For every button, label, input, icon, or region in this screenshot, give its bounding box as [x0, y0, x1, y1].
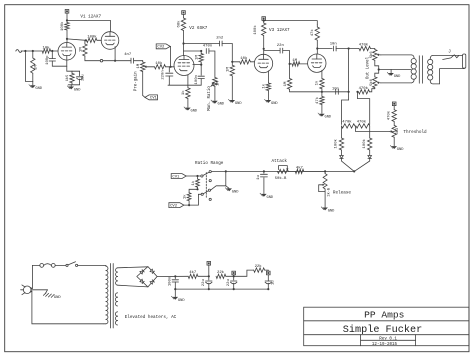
label VR1 1M: [137, 63, 141, 68]
label R11 10k: [240, 56, 248, 61]
wire screen branch: [184, 50, 202, 52]
potentiometer VR1 1M pre-gain: [141, 61, 145, 98]
label VR7 1k-B: [326, 187, 331, 197]
label C7 22n: [277, 44, 284, 48]
svg-text:CV2: CV2: [157, 46, 165, 50]
transistor V2 6SK7 pentode: [174, 56, 194, 76]
resistor R6 10k: [147, 65, 166, 69]
svg-text:100p: 100p: [46, 55, 50, 65]
label R8 1M: [196, 55, 200, 60]
wire V1a cathode: [66, 56, 68, 71]
transformer T2 primary: [411, 59, 416, 80]
wire CV2 to switch: [184, 204, 199, 206]
svg-text:1k: 1k: [182, 194, 187, 199]
label R4 1M: [79, 47, 83, 52]
node V3 B+ junction: [263, 20, 265, 22]
svg-text:220n: 220n: [162, 70, 166, 79]
capacitor C8 10n top: [334, 46, 337, 51]
resistor R16 47k plate: [315, 25, 319, 49]
node C1 junction: [51, 50, 53, 52]
power flag V2 B+: [182, 11, 186, 15]
node rail drop junction: [225, 170, 227, 172]
svg-text:1u: 1u: [271, 280, 275, 285]
wire sidechain right drop: [358, 92, 370, 125]
label VR6 50k-B: [275, 176, 287, 181]
svg-text:CV1: CV1: [150, 97, 158, 101]
wiper arrow VR4: [377, 81, 381, 84]
wire C5 to ratio pot: [209, 51, 215, 78]
svg-text:68k: 68k: [177, 20, 182, 28]
label R24 100k: [362, 138, 367, 148]
node top rail junction: [348, 47, 350, 49]
svg-text:47k: 47k: [310, 29, 315, 37]
node output bubble: [100, 59, 103, 62]
wire fuse to switch: [55, 264, 66, 266]
switch SW1 pole2 arm: [203, 191, 208, 194]
svg-text:2n2: 2n2: [216, 36, 224, 40]
resistor R13 1M: [290, 62, 308, 66]
svg-text:4k7: 4k7: [189, 270, 197, 275]
svg-text:100k: 100k: [253, 25, 258, 35]
resistor R3 100k plate load: [65, 20, 69, 39]
node release junction: [324, 170, 326, 172]
wire output node: [85, 60, 131, 62]
resistor R18 47k bleed: [320, 92, 324, 114]
power flag node A: [207, 262, 211, 277]
label R12 100k: [253, 25, 258, 35]
wire sidechain cross: [342, 49, 349, 125]
label C12 22u: [202, 279, 206, 286]
capacitor C9 10n bottom: [336, 89, 339, 94]
svg-text:GND: GND: [232, 190, 239, 194]
svg-text:V2 6SK7: V2 6SK7: [189, 26, 207, 31]
switch SW1 pole1 arm: [203, 172, 209, 175]
wire C1 to cathode: [52, 61, 67, 66]
svg-text:1k: 1k: [261, 83, 266, 88]
transformer T1 secondary HV: [116, 268, 118, 285]
capacitor C13 22u: [231, 276, 237, 289]
title PP Amps: [364, 310, 404, 321]
node CV2 junction: [188, 204, 190, 206]
label R17 1k: [315, 80, 320, 85]
ground GND center tap: [387, 70, 401, 79]
resistor R19 470k: [359, 46, 375, 50]
svg-text:100n: 100n: [169, 277, 173, 286]
label V1 12AX7: [80, 15, 101, 20]
resistor R1 1M: [31, 51, 35, 81]
capacitor C1 100p: [49, 51, 55, 61]
svg-text:1k: 1k: [315, 80, 320, 85]
wire C8 to junction: [336, 48, 359, 50]
label R3 100k: [60, 21, 65, 31]
op-amp V3a triode: [254, 54, 272, 72]
label R13 1M: [292, 59, 297, 63]
wire V3a plate lead: [263, 49, 265, 55]
capacitor C14 1u: [265, 281, 271, 289]
svg-text:470n: 470n: [203, 45, 212, 49]
node input junction: [24, 50, 26, 52]
node B+ junction V1: [66, 19, 68, 21]
transformer T1 primary: [104, 265, 108, 323]
wire pole2 to rail drop: [211, 186, 226, 190]
label R30 22k: [217, 270, 225, 275]
label Elevated heaters AC: [125, 315, 177, 320]
wire V2 plate to C6: [184, 43, 220, 45]
title block col line 2: [415, 335, 417, 346]
svg-text:GND: GND: [397, 148, 404, 152]
label V3 12AX7: [269, 28, 290, 33]
label C1 100p: [46, 55, 50, 65]
title block row line 1: [304, 320, 469, 322]
wire cathode bus top: [67, 70, 80, 72]
svg-text:100k: 100k: [87, 34, 97, 39]
diode D2: [368, 156, 372, 159]
label C9 10n: [332, 87, 339, 91]
svg-text:22u: 22u: [202, 279, 206, 286]
svg-text:1k: 1k: [191, 180, 196, 185]
ground GND switch: [225, 186, 239, 195]
node R26 bottom junction: [196, 188, 198, 190]
resistor R28 4k7: [288, 169, 325, 173]
chassis ground: [43, 293, 61, 300]
switch SW1 pole1 throw A: [209, 171, 211, 173]
label C14 1u: [271, 280, 275, 285]
potentiometer VR3 5k6: [373, 49, 379, 70]
svg-text:GND: GND: [271, 102, 278, 106]
label C5 470n: [203, 45, 212, 49]
svg-text:1k-B: 1k-B: [326, 187, 331, 197]
svg-text:1M: 1M: [217, 81, 221, 86]
wire psu ground rail: [175, 288, 268, 290]
resistor R30 22k: [216, 274, 234, 278]
title Simple Fucker: [343, 324, 422, 336]
label R1 1M: [35, 65, 39, 70]
ground GND R18: [318, 113, 332, 120]
jack sleeve wire: [430, 68, 464, 84]
svg-text:3k3: 3k3: [395, 128, 400, 135]
title block frame: [304, 307, 469, 346]
AC plug: [21, 285, 32, 295]
jack tip contact: [443, 55, 459, 60]
label C15 22u: [81, 74, 85, 80]
title date: [372, 343, 398, 347]
node V2 plate junction: [182, 42, 184, 44]
node V1b grid junction: [85, 39, 87, 41]
svg-text:GND: GND: [74, 88, 81, 92]
svg-text:Elevated heaters, AC: Elevated heaters, AC: [125, 315, 177, 320]
wire V2 plate lead: [183, 44, 185, 56]
switch SW1 pole2 throw B: [209, 198, 211, 200]
svg-text:1k: 1k: [181, 90, 186, 95]
wire C6 to grid node: [222, 44, 232, 62]
ground GND1: [29, 85, 43, 92]
tag CV1 output: [145, 95, 158, 101]
label VR2 1M: [217, 81, 221, 86]
wire secondary top lead: [430, 55, 462, 59]
title block row line 2: [304, 334, 469, 336]
node A junction: [208, 275, 210, 277]
ground GND threshold: [390, 145, 404, 152]
op-amp V3b triode: [308, 54, 326, 72]
label R6 10k: [155, 61, 163, 66]
wire threshold tap: [355, 126, 389, 131]
label C6 2n2: [216, 36, 224, 40]
power flag V1 B+: [65, 10, 69, 21]
title block rev line: [361, 339, 416, 341]
capacitor C4 100n screen: [168, 65, 204, 86]
svg-text:10n: 10n: [330, 42, 337, 46]
resistor R31 22k: [254, 268, 265, 272]
svg-text:1k5: 1k5: [65, 75, 70, 81]
svg-text:100n: 100n: [195, 75, 199, 84]
svg-text:100k: 100k: [362, 138, 367, 148]
resistor R24 100k right: [368, 126, 372, 156]
svg-text:PP Amps: PP Amps: [364, 310, 404, 321]
svg-text:GND: GND: [54, 296, 62, 300]
wire V3b cathode: [321, 70, 323, 78]
label R5 100k: [87, 34, 97, 39]
svg-text:Out Level: Out Level: [365, 56, 370, 79]
transformer T1 heater winding 1: [115, 293, 117, 306]
resistor R11 10k: [232, 60, 250, 64]
potentiometer VR5 3k3 threshold: [392, 125, 396, 145]
potentiometer VR7 1k-B release: [323, 171, 327, 207]
node C10 junction: [263, 170, 265, 172]
capacitor C10 1u: [260, 171, 267, 193]
label VR5 3k3: [395, 128, 400, 135]
capacitor C15 22u bypass: [77, 71, 83, 85]
node CV1 junction: [196, 175, 198, 177]
wire to GND1b: [70, 85, 72, 87]
resistor R15 1k: [266, 83, 270, 100]
svg-text:10k: 10k: [155, 61, 163, 66]
resistor R9 1k cathode: [186, 88, 190, 108]
svg-text:1M: 1M: [79, 47, 83, 52]
resistor R26 1k: [196, 176, 200, 189]
switch SW1 pole2 common: [201, 193, 203, 195]
wire R2 to V1a grid: [51, 50, 59, 52]
node ground rail junction: [174, 288, 176, 290]
svg-text:47k: 47k: [315, 96, 320, 104]
label VR4 5k6: [369, 79, 374, 86]
potentiometer VR6 50k-B attack: [278, 169, 289, 173]
label C3 220n: [162, 70, 166, 79]
power flag node B: [232, 271, 236, 276]
wire diode summing: [342, 159, 370, 172]
svg-text:1M: 1M: [227, 67, 231, 72]
wiper arrow VR5: [389, 130, 393, 133]
svg-text:1M: 1M: [292, 59, 297, 63]
label R16 47k: [310, 29, 315, 37]
resistor R25 470k: [392, 106, 396, 126]
label R27 1k: [182, 194, 187, 199]
label Threshold: [403, 130, 427, 135]
wire rail drop: [225, 171, 227, 185]
label R31 22k: [255, 264, 263, 269]
resistor R22 470k right: [356, 124, 370, 128]
svg-text:Release: Release: [333, 191, 351, 196]
label R15 1k: [261, 83, 266, 88]
switch SW2 power: [66, 262, 104, 267]
svg-text:Simple Fucker: Simple Fucker: [343, 324, 422, 336]
tag CV2 input: [156, 44, 170, 50]
ground GND release: [321, 207, 335, 214]
wire CV2 to grid: [170, 46, 172, 66]
label J jack: [448, 49, 451, 54]
wire C7 to V3b grid node: [283, 51, 290, 64]
node summing junction: [353, 170, 355, 172]
svg-text:V1 12AX7: V1 12AX7: [80, 15, 101, 20]
svg-text:10k: 10k: [43, 45, 51, 50]
svg-text:4k7: 4k7: [296, 165, 304, 170]
wire R11 to V3a grid: [250, 61, 254, 63]
svg-text:Ratio Range: Ratio Range: [195, 161, 224, 166]
node gnd rail B: [233, 288, 235, 290]
svg-text:470k: 470k: [357, 120, 367, 125]
capacitor C2 4n7: [131, 58, 134, 63]
resistor R23 100k left: [339, 126, 343, 156]
svg-text:GND: GND: [235, 102, 242, 106]
svg-text:GND: GND: [267, 196, 274, 200]
label V2 6SK7: [189, 26, 207, 31]
label R23 100k: [334, 138, 339, 148]
wire to node C: [265, 270, 269, 271]
wire R26 to R27: [189, 189, 197, 193]
wire CV1 to switch: [186, 175, 200, 177]
node V3a plate junction: [263, 48, 265, 50]
label R26 1k: [191, 180, 196, 185]
svg-text:1M: 1M: [35, 65, 39, 70]
label R20 470k: [359, 86, 369, 91]
wire HV bottom lead: [118, 285, 148, 287]
transformer T1 core: [111, 264, 114, 329]
transformer T2 secondary: [428, 59, 433, 80]
svg-text:22u: 22u: [81, 74, 85, 80]
capacitor C7 22n: [280, 48, 283, 53]
wire cathode bus bottom: [68, 84, 79, 86]
capacitor C5 470n: [206, 49, 209, 54]
label C8 10n: [330, 42, 337, 46]
svg-text:Rev 0.1: Rev 0.1: [379, 338, 397, 342]
wire V3b plate lead: [316, 49, 318, 55]
resistor R5 100k grid stopper: [87, 38, 97, 42]
wiper arrow VR2: [211, 82, 214, 86]
op-amp V1a triode: [58, 43, 76, 61]
svg-text:470k: 470k: [359, 86, 369, 91]
label R25 470k: [386, 110, 391, 120]
svg-text:22u: 22u: [227, 279, 231, 286]
label Attack: [272, 159, 288, 164]
wire center tap: [379, 69, 411, 71]
ground GND R10: [228, 99, 242, 106]
label R28 4k7: [296, 165, 304, 170]
label Release: [333, 191, 351, 196]
node B junction: [233, 275, 235, 277]
label R19 470k: [359, 43, 369, 48]
svg-text:GND: GND: [35, 87, 42, 91]
ground GND V3a: [265, 99, 279, 106]
capacitor C12 22u: [206, 276, 212, 289]
tag CV2 ratio: [169, 203, 184, 209]
wire to ground: [32, 81, 34, 85]
input source squiggle: [16, 50, 22, 53]
svg-text:J: J: [448, 49, 451, 54]
svg-text:1u: 1u: [257, 175, 261, 180]
label C13 22u: [227, 279, 231, 286]
svg-text:Man. Ratio: Man. Ratio: [207, 86, 212, 111]
wire plug earth: [31, 290, 48, 294]
node V3 grid node: [231, 61, 233, 63]
power flag node C: [267, 271, 271, 281]
label R22 470k: [357, 120, 367, 125]
label Out Level: [365, 56, 370, 79]
svg-text:GND: GND: [178, 299, 185, 303]
svg-text:GND: GND: [325, 116, 332, 120]
svg-text:50k-B: 50k-B: [275, 176, 287, 181]
node center tap junction: [378, 68, 380, 70]
resistor R4 1M feedback: [83, 40, 87, 60]
svg-text:10k: 10k: [240, 56, 248, 61]
wiper arrow VR3: [377, 54, 381, 57]
power flag V3 B+: [262, 17, 266, 21]
switch SW1 pole1 common: [201, 175, 203, 177]
svg-text:12-19-2015: 12-19-2015: [372, 343, 398, 347]
resistor R27 1k: [187, 193, 191, 205]
svg-text:Attack: Attack: [272, 159, 288, 164]
svg-text:GND: GND: [328, 209, 335, 213]
wire R6 to V2 grid: [166, 66, 175, 68]
wire V2 cathode: [187, 75, 189, 88]
wire V3a to C7: [264, 50, 280, 52]
label C10 1u: [257, 175, 261, 180]
svg-text:22n: 22n: [277, 44, 284, 48]
wire bottom primary lead: [381, 79, 414, 83]
resistor R14 1M: [287, 64, 291, 92]
label R9 1k: [181, 90, 186, 95]
potentiometer VR4 5k6: [373, 70, 379, 89]
resistor R7 68k: [181, 14, 185, 43]
wire V1a plate: [66, 39, 68, 43]
wire HV top lead: [118, 267, 148, 268]
svg-text:GND: GND: [394, 75, 401, 79]
wiper arrow VR1: [144, 66, 147, 69]
svg-text:1M: 1M: [284, 81, 288, 86]
label VR3 5k6: [369, 51, 374, 58]
node sidechain R tap: [356, 91, 358, 93]
fuse F1: [40, 264, 55, 268]
wire plate rail: [317, 48, 332, 50]
wire V3a cathode: [267, 71, 269, 83]
resistor R20 470k: [359, 89, 375, 94]
switch SW1 pole1 throw B: [209, 180, 211, 182]
power flag threshold B+: [392, 102, 396, 106]
wire top primary lead: [381, 55, 414, 59]
node screen cap junction: [200, 64, 202, 66]
wire B+ rail to V1b plate: [67, 20, 110, 31]
diode D1: [340, 156, 344, 159]
label Pre-gain: [134, 71, 139, 91]
svg-text:Threshold: Threshold: [403, 130, 427, 135]
svg-text:22k: 22k: [217, 270, 225, 275]
wire control rail: [210, 170, 354, 172]
wire C2 to pot: [134, 60, 143, 62]
ground GND V1a: [67, 86, 81, 93]
svg-text:4n7: 4n7: [124, 53, 132, 57]
title Rev 0.1: [379, 338, 397, 342]
node cathode junction: [114, 60, 116, 62]
node screen RC junction: [200, 50, 202, 52]
wiper loop VR7: [319, 184, 325, 192]
